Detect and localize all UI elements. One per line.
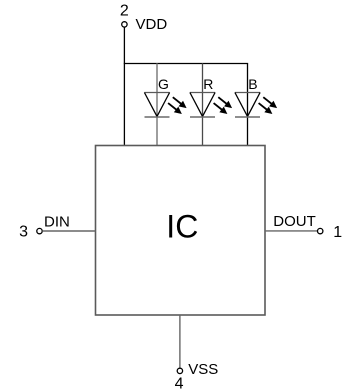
LED R anode/cathode wire <box>202 63 204 145</box>
terminal pin 3 (DIN) <box>37 228 42 233</box>
LED R light arrow 1 <box>216 94 234 111</box>
LED B light arrow 2 <box>256 100 274 117</box>
terminal pin 4 (VSS) <box>177 368 182 373</box>
LED R light arrow 2 <box>211 100 229 117</box>
IC body <box>96 146 266 316</box>
LED G triangle <box>144 93 169 117</box>
svg-text:DIN: DIN <box>44 213 70 230</box>
svg-text:G: G <box>158 76 169 92</box>
svg-text:2: 2 <box>120 2 129 19</box>
LED B cathode bar <box>235 116 260 118</box>
svg-text:VSS: VSS <box>188 361 218 378</box>
svg-text:B: B <box>248 76 257 92</box>
LED G cathode bar <box>145 116 170 118</box>
LED B triangle <box>235 93 260 117</box>
svg-text:VDD: VDD <box>136 16 168 33</box>
LED G light arrow 1 <box>171 94 189 111</box>
svg-text:DOUT: DOUT <box>273 213 316 230</box>
terminal pin 2 (VDD) <box>122 22 127 27</box>
svg-text:1: 1 <box>333 224 342 241</box>
LED G light arrow 2 <box>166 100 184 117</box>
svg-text:IC: IC <box>166 209 198 245</box>
svg-text:R: R <box>203 76 213 92</box>
wire VDD vertical <box>123 27 125 145</box>
LED B light arrow 1 <box>261 94 279 111</box>
LED B anode/cathode wire <box>247 63 249 145</box>
wire VDD bus horizontal <box>124 63 248 65</box>
svg-text:4: 4 <box>175 375 184 392</box>
wire DIN <box>42 230 95 232</box>
LED R cathode bar <box>190 116 215 118</box>
LED G anode/cathode wire <box>156 63 158 145</box>
wire VSS <box>179 315 181 368</box>
wire DOUT <box>265 230 317 232</box>
svg-text:3: 3 <box>19 224 28 241</box>
terminal pin 1 (DOUT) <box>318 228 323 233</box>
LED R triangle <box>190 93 215 117</box>
